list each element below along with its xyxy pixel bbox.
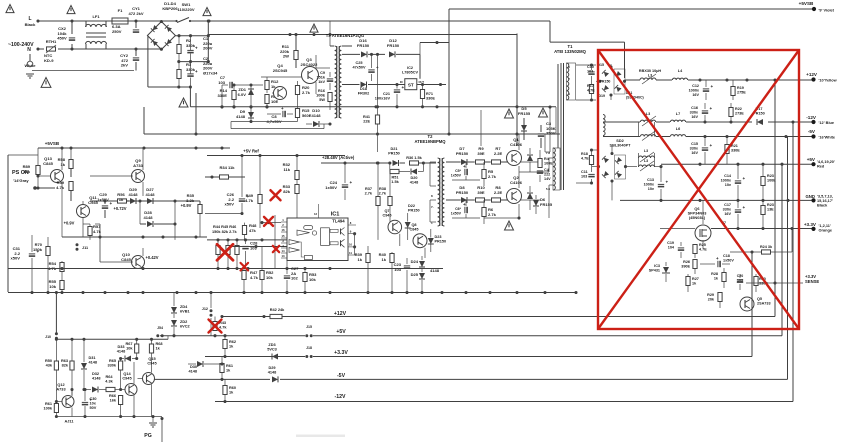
capacitor C21	[394, 85, 405, 109]
diode D7	[446, 159, 474, 165]
resistor R46	[235, 240, 239, 268]
svg-text:Q14: Q14	[123, 372, 131, 376]
C27 label	[291, 266, 299, 281]
svg-text:+: +	[402, 85, 405, 90]
svg-text:LF1: LF1	[92, 14, 100, 19]
diode D20	[399, 163, 423, 175]
svg-text:Y: Y	[568, 77, 570, 81]
svg-text:2SC945: 2SC945	[273, 68, 288, 73]
capacitor C3	[538, 125, 544, 148]
svg-text:+12V: +12V	[334, 311, 347, 317]
ZD1 label	[238, 87, 247, 97]
wire bus 246	[230, 245, 287, 248]
wire bus 61.6	[177, 60, 210, 63]
capacitor C28	[242, 240, 248, 269]
D16 label	[357, 38, 370, 48]
svg-text:7-: 7-	[431, 205, 434, 209]
wire q2 row	[446, 199, 540, 201]
R53 label	[309, 272, 317, 282]
svg-text:1000x: 1000x	[689, 88, 700, 92]
ZD2 label	[180, 320, 190, 329]
IC1 label	[331, 212, 340, 218]
R47 label	[250, 270, 259, 280]
inductor LF1 common-mode choke	[86, 21, 107, 49]
svg-text:R37: R37	[365, 187, 372, 191]
svg-text:F1: F1	[118, 8, 123, 13]
svg-text:330E: 330E	[731, 148, 740, 152]
svg-text:2.2E: 2.2E	[494, 190, 503, 195]
svg-text:+5V: +5V	[807, 157, 816, 162]
svg-text:11k: 11k	[283, 167, 290, 172]
svg-text:13E: 13E	[767, 207, 774, 211]
svg-text:4148: 4148	[311, 113, 321, 118]
svg-text:10E: 10E	[271, 99, 279, 104]
R35 label	[186, 193, 195, 203]
svg-text:2.7k: 2.7k	[488, 174, 497, 179]
svg-text:'9' Violet: '9' Violet	[819, 9, 835, 13]
svg-text:RBX30 10µH: RBX30 10µH	[639, 69, 661, 73]
svg-text:330x: 330x	[723, 207, 732, 211]
svg-text:2SC4022: 2SC4022	[301, 62, 319, 67]
wire v 144	[143, 107, 145, 134]
resistor R64 4.3k	[106, 387, 126, 391]
diode D8	[446, 197, 474, 203]
svg-text:47k: 47k	[249, 228, 257, 233]
svg-text:4148: 4148	[128, 192, 138, 197]
wire misc drop t2	[555, 107, 557, 134]
resistor R30 330E	[754, 274, 758, 292]
resistor R56	[118, 199, 127, 203]
IC2 pin out	[419, 80, 425, 84]
svg-text:+: +	[463, 202, 466, 207]
svg-text:ZD2: ZD2	[180, 320, 187, 324]
-12V out label	[806, 115, 817, 120]
svg-text:ATEE19NBPMQ: ATEE19NBPMQ	[414, 139, 446, 144]
jumper J11	[76, 243, 89, 250]
resistor R58	[69, 148, 73, 177]
svg-text:'12' Blue: '12' Blue	[819, 121, 835, 125]
transistor Q10 C845	[100, 248, 145, 270]
R27 label	[692, 277, 699, 285]
svg-text:AJ11: AJ11	[65, 420, 75, 424]
svg-text:2.7k: 2.7k	[365, 192, 373, 196]
IC1 osc box	[304, 226, 313, 230]
resistor R17	[589, 82, 593, 102]
resistor R61 100k	[54, 404, 58, 419]
svg-text:D33: D33	[117, 345, 124, 349]
svg-text:4148: 4148	[89, 361, 98, 365]
R64 label	[105, 375, 113, 384]
transistor Q5 2SA733	[740, 297, 754, 311]
svg-text:+: +	[110, 201, 113, 206]
D28 label	[143, 210, 153, 220]
resistor R29 20k	[718, 292, 722, 308]
svg-text:+3.3V: +3.3V	[804, 222, 817, 227]
svg-text:14: 14	[281, 249, 285, 253]
svg-text:Q8: Q8	[411, 223, 416, 227]
resistor R12	[261, 77, 283, 93]
CX2 label	[57, 26, 67, 41]
warning triangle mid3	[539, 108, 548, 117]
R13 label	[271, 94, 279, 104]
resistor R71	[420, 85, 424, 109]
wire -5V drop	[787, 137, 789, 380]
wire center gnd col	[480, 110, 482, 146]
svg-text:R34 11k: R34 11k	[219, 165, 235, 170]
PG label	[144, 433, 152, 439]
D29 label	[268, 366, 277, 375]
svg-text:SBL3040PT: SBL3040PT	[610, 144, 632, 148]
R70 label	[33, 242, 43, 252]
wire B+ 35.7	[175, 34, 210, 37]
node +5V output	[811, 162, 815, 166]
svg-text:+: +	[350, 180, 353, 185]
wire q6 drain	[702, 200, 704, 248]
svg-text:1x50V: 1x50V	[723, 258, 734, 262]
svg-text:3.3k: 3.3k	[186, 198, 195, 203]
R37 label	[365, 187, 373, 196]
D23 label	[435, 235, 447, 244]
PS ON pin	[13, 178, 29, 183]
+3.3V out label	[804, 222, 817, 227]
svg-text:ZD4: ZD4	[180, 305, 188, 309]
svg-text:2SA733: 2SA733	[757, 301, 771, 305]
svg-text:151k: 151k	[317, 76, 326, 80]
svg-text:D23: D23	[435, 235, 442, 239]
T1 pin 4	[568, 92, 570, 96]
resistor R22 273E	[729, 103, 733, 122]
resistor R52	[260, 246, 264, 292]
svg-text:SENSE: SENSE	[805, 279, 819, 284]
svg-text:+12V: +12V	[806, 72, 818, 77]
C28 label	[250, 241, 258, 251]
svg-text:16k: 16k	[110, 399, 117, 403]
svg-text:R64: R64	[105, 375, 113, 379]
svg-text:10k: 10k	[126, 347, 133, 351]
jumper J10	[45, 332, 58, 339]
svg-text:47x50V: 47x50V	[352, 66, 366, 70]
resistor R10 39E	[476, 198, 491, 202]
svg-text:D29: D29	[268, 366, 275, 370]
wire CX2 vertical	[71, 21, 73, 49]
node L color	[25, 22, 37, 27]
svg-text:+28.48V (Active): +28.48V (Active)	[322, 155, 355, 160]
zener ZD3 5VC3	[272, 354, 278, 360]
svg-text:J15: J15	[306, 325, 312, 329]
IC U-IC2 L7805CV	[405, 79, 446, 90]
wire AC line N	[36, 47, 161, 50]
svg-text:D24: D24	[411, 259, 419, 264]
svg-text:275E: 275E	[737, 90, 746, 94]
svg-text:104: 104	[668, 245, 675, 249]
L7 label	[676, 112, 680, 116]
svg-text:4.7E: 4.7E	[699, 247, 707, 251]
svg-text:4148: 4148	[117, 350, 126, 354]
D17 label	[753, 107, 764, 115]
svg-text:R38: R38	[379, 187, 386, 191]
L3 choke label	[639, 69, 661, 77]
svg-text:RTH1: RTH1	[46, 39, 57, 44]
svg-text:+: +	[281, 106, 284, 111]
wire mid rail 107	[190, 105, 556, 108]
diode D17 PR150	[757, 119, 763, 125]
resistor R32	[295, 156, 299, 180]
wire v275	[274, 215, 276, 269]
svg-text:250V: 250V	[112, 29, 122, 34]
diode D29ps 4148	[130, 198, 136, 204]
svg-text:2W: 2W	[283, 54, 289, 59]
svg-text:4148: 4148	[143, 215, 153, 220]
svg-text:82k: 82k	[283, 189, 291, 194]
D15 bridge PR150	[600, 80, 611, 84]
diode D22 PR150	[405, 213, 411, 240]
svg-text:D25: D25	[411, 272, 419, 277]
svg-text:PR150: PR150	[456, 151, 469, 156]
transistor Q13 C845	[51, 148, 64, 237]
D5 label	[518, 106, 531, 116]
svg-text:x50V: x50V	[11, 256, 21, 261]
D7 label	[456, 146, 469, 156]
fuse F1	[112, 18, 128, 24]
svg-text:C845: C845	[43, 161, 53, 166]
svg-text:10k: 10k	[266, 275, 274, 280]
svg-text:-12V: -12V	[335, 394, 346, 400]
ground earth symbol	[26, 54, 34, 78]
diode DQ1	[527, 148, 533, 172]
R17 label	[587, 84, 595, 92]
svg-text:D18: D18	[360, 87, 367, 91]
R26 label	[681, 260, 690, 268]
svg-text:J18: J18	[306, 346, 312, 350]
inductor T1 sec tap coil	[603, 115, 605, 136]
svg-text:Black: Black	[817, 204, 828, 208]
IC1 opamp 2	[289, 240, 300, 245]
wire nest y43	[420, 41, 449, 44]
resistor R65 330k	[106, 357, 123, 391]
R89 label	[23, 164, 31, 174]
R5 label	[488, 169, 497, 179]
svg-text:10v: 10v	[648, 187, 655, 191]
resistor R59	[69, 182, 73, 202]
capacitor C2	[187, 62, 198, 87]
svg-text:R41: R41	[363, 115, 370, 119]
diode D27	[137, 198, 200, 204]
resistor R38	[388, 172, 392, 223]
red cross mark 1	[271, 190, 281, 200]
svg-text:SFP34N03: SFP34N03	[688, 212, 707, 216]
R56 label	[117, 192, 125, 202]
svg-text:R27: R27	[692, 277, 699, 281]
svg-text:C845: C845	[121, 257, 131, 262]
svg-text:R36 1.5k: R36 1.5k	[406, 156, 422, 160]
svg-text:390E: 390E	[681, 264, 690, 268]
R2 label	[186, 38, 196, 48]
svg-text:330E: 330E	[426, 97, 435, 101]
IC1 out transistor 2	[341, 239, 345, 247]
svg-text:C25: C25	[356, 61, 363, 65]
svg-text:250V: 250V	[546, 131, 556, 136]
wire sense drop	[802, 282, 804, 284]
svg-text:KD-9: KD-9	[44, 58, 54, 63]
C3 label	[546, 121, 556, 136]
svg-text:200V: 200V	[203, 46, 213, 51]
svg-text:A733: A733	[56, 388, 65, 392]
svg-text:ZD3: ZD3	[268, 343, 275, 347]
CY1 label	[128, 6, 143, 16]
svg-text:PG: PG	[144, 433, 152, 439]
capacitor C26	[205, 156, 250, 216]
svg-text:Q15: Q15	[148, 357, 156, 361]
svg-text:Black: Black	[25, 22, 37, 27]
wire +5VSB top rail	[449, 9, 814, 134]
svg-text:16V: 16V	[691, 115, 698, 119]
svg-text:103: 103	[587, 69, 593, 73]
C26 label	[225, 192, 235, 207]
capacitor C16	[702, 103, 713, 122]
svg-text:100k: 100k	[43, 407, 52, 411]
svg-text:-5V: -5V	[808, 129, 816, 134]
svg-text:Y: Y	[547, 169, 549, 173]
svg-text:J54: J54	[157, 326, 163, 330]
svg-text:+5VSB: +5VSB	[799, 1, 814, 6]
transistor Q1 C4106	[507, 134, 522, 172]
resistor R36 1.5k	[388, 161, 436, 165]
diode D23 PR150	[428, 229, 434, 252]
svg-text:J10: J10	[45, 335, 51, 339]
diode D30 4148	[188, 361, 224, 367]
svg-text:R26: R26	[683, 260, 690, 264]
wire rail -5V	[148, 378, 788, 381]
svg-text:11: 11	[349, 251, 352, 255]
F1 value	[112, 24, 122, 34]
C8 label	[266, 114, 281, 124]
R61 label	[43, 402, 52, 411]
svg-text:39E: 39E	[477, 151, 485, 156]
svg-text:20k: 20k	[708, 297, 715, 301]
capacitor C31	[29, 235, 40, 292]
resistor R23b 13E	[761, 200, 765, 228]
node +12V output	[811, 77, 815, 81]
wire +12V drop	[774, 80, 776, 317]
Q3 label	[301, 57, 319, 67]
-12V pin	[819, 121, 835, 125]
wire Q1 emitter to T1	[519, 158, 553, 172]
wire pg out	[160, 417, 345, 442]
R42 label	[270, 308, 285, 312]
svg-text:R22: R22	[735, 107, 742, 111]
resistor R42 24k	[270, 314, 282, 318]
+3.3V SENSE label	[805, 274, 819, 284]
svg-text:R16: R16	[318, 89, 325, 93]
transistor Q3 2SC4022	[283, 55, 319, 94]
rectifier bridge D15 D19 D11	[596, 64, 626, 100]
T1 pin Y2	[547, 169, 549, 173]
svg-text:ST: ST	[408, 83, 414, 88]
IC1 part no	[332, 219, 345, 224]
wire pin16 row	[260, 221, 281, 224]
R24 label	[760, 245, 773, 249]
resistor R6 2.7k	[482, 200, 486, 224]
transistor Q14 C945	[125, 362, 137, 417]
wire +5Vref rail	[207, 154, 345, 157]
svg-text:R71: R71	[426, 92, 433, 96]
svg-text:+: +	[743, 176, 746, 181]
svg-text:'1,2,11': '1,2,11'	[819, 224, 831, 228]
R6 label	[488, 207, 497, 217]
D20 label	[410, 176, 418, 185]
rail -5V label	[337, 373, 346, 379]
diode D24	[419, 256, 425, 267]
C4 label	[544, 168, 551, 181]
capacitor C6	[452, 200, 480, 218]
resistor R15	[231, 95, 324, 129]
node +5VSB output	[812, 7, 816, 11]
-5V pin	[819, 136, 836, 140]
svg-text:+0.9V: +0.9V	[64, 221, 75, 226]
R66 label	[109, 394, 117, 403]
inductor L3c	[640, 131, 656, 141]
ground pg	[149, 417, 157, 428]
R23 label	[767, 174, 776, 182]
svg-text:C4106: C4106	[510, 180, 523, 185]
resistor R68 1k	[149, 339, 153, 372]
resistor R19 275E	[731, 80, 735, 100]
C18 label	[723, 254, 734, 262]
wire bus 292 gnd	[8, 291, 578, 294]
svg-text:10x: 10x	[90, 402, 97, 406]
resistor R14	[232, 83, 236, 108]
IC U-IC1 TL494 body	[287, 218, 348, 261]
wire +5V drop	[781, 164, 783, 336]
svg-text:PR150: PR150	[435, 240, 447, 244]
node -12V output	[811, 120, 815, 124]
R57 label	[93, 224, 102, 234]
+5V pin	[817, 160, 835, 169]
svg-text:15: 15	[281, 234, 285, 238]
svg-text:2kV: 2kV	[121, 63, 129, 68]
C30 label	[90, 397, 97, 410]
wire v208	[207, 19, 210, 61]
warning triangle top2	[203, 8, 211, 16]
T2 label	[414, 134, 446, 144]
zener ZD1	[248, 83, 254, 108]
svg-text:R66: R66	[109, 394, 116, 398]
svg-text:R18: R18	[581, 152, 588, 156]
red cross mark R43	[209, 320, 222, 333]
inductor L4	[672, 78, 687, 80]
R59 label	[56, 180, 65, 190]
svg-text:R23: R23	[767, 174, 774, 178]
resistor R43	[213, 317, 217, 331]
R52 label	[266, 270, 274, 280]
svg-text:D32: D32	[92, 372, 99, 376]
L3b label	[646, 112, 650, 116]
svg-text:103: 103	[737, 278, 743, 282]
rail +12V label	[334, 311, 347, 317]
R49 label	[245, 193, 254, 203]
svg-text:PR150: PR150	[388, 152, 400, 156]
transistor Q2 C4106	[507, 172, 522, 218]
capacitor C1	[187, 36, 198, 62]
warning triangle top-left	[6, 5, 14, 13]
resistor R23 100E	[761, 164, 765, 200]
resistor R28 1k	[722, 268, 726, 288]
D8 label	[456, 185, 469, 195]
Q1 label	[510, 137, 523, 147]
svg-text:4.7k: 4.7k	[250, 275, 259, 280]
L6 label	[676, 127, 680, 131]
T1 pin Y	[568, 77, 570, 81]
